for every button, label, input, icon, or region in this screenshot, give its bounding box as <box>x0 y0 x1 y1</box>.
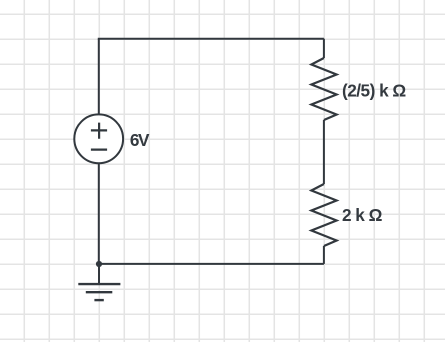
svg-text:6V: 6V <box>130 130 150 150</box>
ground <box>78 264 120 300</box>
wire right lower vertical <box>323 246 325 264</box>
wire left upper vertical <box>98 39 100 115</box>
svg-text:2 k Ω: 2 k Ω <box>342 205 383 225</box>
wire bottom horizontal <box>99 263 324 265</box>
resistor R2 <box>311 184 336 246</box>
svg-text:(2/5) k Ω: (2/5) k Ω <box>342 80 406 100</box>
voltage source V1 <box>74 114 123 163</box>
wire top horizontal <box>99 38 324 39</box>
node junction dot <box>96 261 102 267</box>
wire right middle vertical <box>323 120 325 184</box>
wire right upper vertical <box>323 39 325 58</box>
wire left lower vertical <box>98 163 100 264</box>
resistor R1 <box>311 58 336 120</box>
